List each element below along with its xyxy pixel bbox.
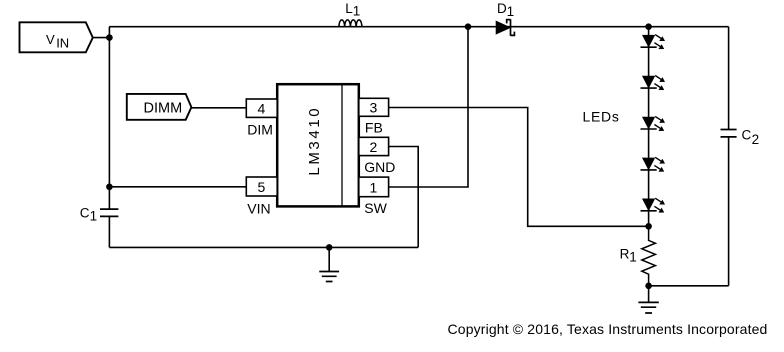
wire R1 bottom to C2 bottom: [649, 285, 729, 287]
node LED bottom / FB junction dot: [645, 223, 652, 230]
svg-text:DIMM: DIMM: [144, 100, 183, 116]
svg-text:R: R: [620, 246, 630, 261]
svg-text:2: 2: [752, 132, 760, 147]
node C1/VIN-pin junction dot: [106, 184, 113, 191]
net flag VIN: [20, 22, 93, 52]
op-amp-style IC body U1 LM3410: [277, 84, 359, 206]
capacitor C1: [100, 209, 118, 216]
pin 3 box: [359, 98, 389, 116]
wire junction to pin 5: [109, 186, 246, 188]
svg-text:C: C: [742, 127, 752, 142]
svg-text:VIN: VIN: [247, 200, 270, 216]
svg-text:C: C: [80, 206, 90, 221]
pin 4 box: [246, 99, 277, 117]
node VIN junction dot: [106, 34, 113, 41]
svg-text:SW: SW: [364, 200, 387, 216]
svg-text:1: 1: [507, 4, 515, 19]
wire DIMM flag to pin 4: [191, 107, 246, 109]
node R1 bottom junction dot: [645, 283, 652, 290]
node SW junction dot on top rail: [465, 23, 472, 30]
capacitor C2: [721, 127, 760, 147]
wire C2 bottom branch: [728, 137, 730, 286]
wire C2 top branch: [728, 27, 730, 130]
svg-text:D: D: [497, 1, 507, 16]
net flag DIMM: [127, 94, 192, 120]
ground symbol center: [319, 247, 339, 281]
svg-text:4: 4: [258, 101, 266, 117]
inductor L1: [339, 1, 362, 27]
pin 2 box: [359, 137, 389, 155]
svg-text:2: 2: [370, 139, 378, 155]
wire LED string vertical: [648, 27, 650, 227]
wire top rail from VIN corner to C2 branch: [109, 26, 728, 28]
label C1: [80, 206, 97, 224]
wire bottom ground rail: [109, 246, 418, 248]
svg-text:1: 1: [370, 180, 378, 196]
svg-text:1: 1: [353, 4, 361, 19]
pin 5 box: [246, 177, 277, 196]
svg-text:1: 1: [90, 209, 98, 224]
wire C1 bottom plate down to bottom rail: [108, 216, 110, 247]
svg-text:DIM: DIM: [247, 121, 273, 137]
wire left vertical from top rail down to C1 top plate: [108, 27, 110, 209]
resistor R1: [620, 226, 656, 285]
wire GND pin 2 to bottom rail: [389, 147, 419, 248]
svg-text:3: 3: [370, 100, 378, 116]
svg-text:5: 5: [258, 179, 266, 195]
svg-text:LEDs: LEDs: [583, 108, 620, 124]
wire FB pin 3 to LED/R1 node: [389, 108, 649, 227]
diode D1 (Schottky): [496, 1, 514, 36]
node bottom-rail ground junction dot: [326, 244, 333, 251]
pin 1 box: [359, 177, 389, 197]
svg-text:LM3410: LM3410: [306, 106, 323, 176]
LED 4: [641, 157, 666, 171]
svg-text:Copyright © 2016, Texas Instru: Copyright © 2016, Texas Instruments Inco…: [448, 321, 768, 337]
LED 3: [641, 116, 666, 131]
LED 2: [641, 76, 666, 91]
ground symbol right: [638, 286, 658, 313]
svg-text:1: 1: [629, 249, 637, 264]
wire SW pin 1 up to L1/D1 junction: [389, 27, 468, 187]
svg-text:FB: FB: [365, 120, 383, 136]
LED 1: [641, 35, 666, 50]
LED 5: [641, 198, 666, 212]
svg-text:V: V: [46, 32, 55, 47]
svg-text:IN: IN: [56, 36, 69, 51]
wire VIN flag tip to junction: [93, 37, 110, 39]
node LED string top junction dot: [645, 23, 652, 30]
svg-text:GND: GND: [364, 159, 395, 175]
